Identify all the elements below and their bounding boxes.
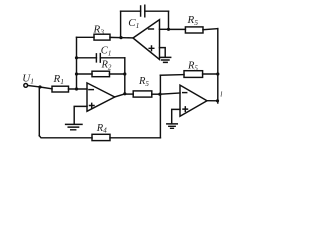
resistor R6	[184, 71, 203, 78]
wire A2 inverting node to R5 (top)	[169, 28, 186, 30]
wire feedback rail down to A1 output	[124, 58, 126, 94]
op-amp A3 (points right)	[180, 85, 207, 116]
wire A2 plus input	[160, 48, 166, 57]
wire R5 bottom to A3 inverting node	[152, 93, 160, 95]
wire to R6	[160, 74, 184, 77]
junction right rail / A3 output	[216, 99, 219, 102]
resistor R2	[92, 71, 110, 77]
wire C1 left to feedback rail	[100, 57, 124, 59]
op-amp A2 (points left)	[133, 20, 160, 60]
capacitor C1 (left feedback)	[96, 54, 100, 63]
wire left rail to C1 (left)	[77, 57, 97, 59]
junction right rail / R6	[216, 72, 219, 75]
wire A3 inverting node to A3 minus input	[160, 93, 180, 94]
wire A3 output to right rail	[207, 100, 218, 102]
junction node B (A1 inverting input)	[75, 87, 78, 90]
wire feedback vertical down to A2 output	[120, 11, 122, 37]
wire A3 inverting node up to R6 branch	[159, 75, 161, 94]
input terminal U1	[24, 84, 28, 88]
A3 plus input tick	[183, 107, 188, 112]
A1 plus input tick	[90, 103, 95, 108]
A2 minus input tick	[149, 28, 154, 30]
A1 minus input tick	[89, 89, 93, 91]
wire R4 to mid rail	[110, 137, 160, 139]
wire input terminal to node A	[28, 86, 40, 88]
wire feedback vertical up	[168, 11, 170, 29]
wire A1 plus input to ground	[74, 106, 87, 123]
resistor R3	[94, 34, 110, 40]
wire R2 to feedback rail	[110, 73, 125, 75]
wire R6 to right rail	[203, 73, 218, 75]
capacitor C1 (top feedback)	[141, 5, 145, 17]
wire left rail to R2	[77, 73, 93, 75]
ground at A1	[66, 124, 82, 129]
wire R5 top to right rail	[203, 29, 218, 30]
junction A2 inverting node	[167, 28, 170, 31]
junction node A	[38, 85, 41, 88]
wire bottom left to R4	[39, 136, 92, 138]
op-amp A1 (points right)	[87, 83, 115, 111]
resistor R1	[52, 86, 69, 92]
wire right rail (A3 output net)	[217, 29, 219, 103]
wire R1 to A1 inverting input	[69, 88, 88, 90]
A3 minus input tick	[183, 92, 187, 94]
wire left rail to R3	[77, 36, 95, 38]
svg-text:l: l	[220, 90, 222, 99]
resistor R4	[92, 134, 110, 140]
wire A1 output to R5 (bottom)	[125, 93, 133, 95]
wire left rail node B up	[76, 37, 78, 89]
junction A3 inverting node	[158, 93, 161, 96]
junction A2 output node	[119, 36, 122, 39]
A2 plus input tick	[149, 46, 154, 51]
wire A3 plus input to ground	[172, 109, 180, 123]
wire mid rail up to A3 inverting node	[159, 94, 161, 138]
resistor R5 (top)	[185, 27, 203, 33]
wire node A down (R4 branch)	[38, 87, 40, 136]
wire A2 minus input to junction	[160, 28, 169, 30]
wire feedback top left	[121, 10, 141, 12]
resistor R5 (bottom)	[133, 91, 152, 97]
wire feedback top right	[145, 10, 169, 12]
junction feedback rail / A1 output	[123, 92, 126, 95]
ground at A2	[160, 57, 171, 62]
junction feedback rail / R2	[123, 72, 126, 75]
junction on left rail (C1 branch)	[75, 56, 78, 59]
junction on left rail (R2 branch)	[75, 72, 78, 75]
ground at A3	[167, 124, 178, 128]
wire node A to R1	[40, 87, 52, 89]
wire R3 to A2 output node	[110, 36, 133, 39]
wire A1 output	[115, 94, 125, 97]
